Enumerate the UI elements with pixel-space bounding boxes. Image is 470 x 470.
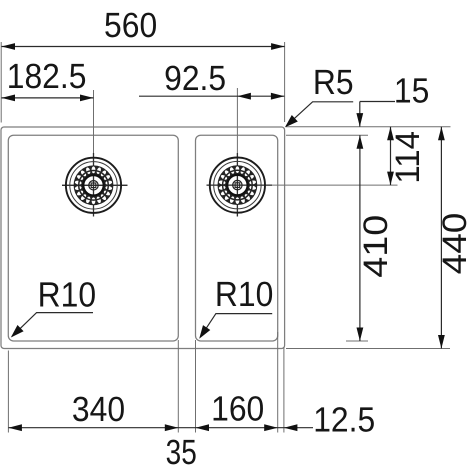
svg-text:R10: R10 <box>215 275 273 314</box>
svg-text:35: 35 <box>166 433 197 470</box>
arrow R10 right leader <box>199 325 210 339</box>
arrow 35 right / 160 left <box>196 424 210 431</box>
bowl 1 (left, 340) <box>8 135 178 341</box>
drain 1 vertical centerline <box>93 90 95 217</box>
ext bowl2 right x=277.7 <box>277 332 279 433</box>
drain 1 horizontal centerline <box>62 184 128 186</box>
arrow 114 down <box>387 172 394 186</box>
dim 15 line upper <box>360 102 395 127</box>
drain strainer bowl 2 <box>210 158 265 213</box>
dim 440 line <box>440 127 442 349</box>
svg-text:440: 440 <box>436 213 470 275</box>
svg-text:410: 410 <box>357 215 395 278</box>
arrow 114 up <box>387 127 394 141</box>
svg-text:12.5: 12.5 <box>313 401 375 440</box>
ext bowl1 left bottom x=8.4 <box>7 351 9 433</box>
arrow 182.5 left <box>2 95 16 102</box>
arrow 12.5 right <box>284 424 298 431</box>
dim 114 line <box>390 127 392 185</box>
arrow 440 down <box>438 335 445 349</box>
arrow 340 right / 35 left <box>165 424 179 431</box>
arrow 560 left <box>2 43 16 50</box>
bowl 2 (right, 160) <box>196 135 278 341</box>
arrow 92.5 left <box>237 93 251 100</box>
ext right x=284.6 <box>284 42 286 122</box>
sink outer rim <box>1 127 285 349</box>
R10 left leader <box>12 313 93 337</box>
svg-text:15: 15 <box>394 72 429 111</box>
ext divider left x=178.3 <box>177 340 179 433</box>
arrowheads <box>2 43 445 431</box>
svg-text:340: 340 <box>72 390 125 429</box>
ext divider right x=195.5 <box>195 340 197 433</box>
drain 2 horizontal centerline / ext for 114 <box>207 184 398 186</box>
arrow 410 down <box>357 328 364 342</box>
svg-text:560: 560 <box>104 6 157 45</box>
R10 right leader <box>201 314 273 337</box>
ext outer right bottom x=283.9 <box>283 347 285 433</box>
arrow R5 leader <box>285 115 298 127</box>
dim bottom line <box>8 427 313 429</box>
drain 1 crosshair <box>62 153 272 217</box>
svg-text:114: 114 <box>389 131 427 184</box>
arrow 340 left <box>8 424 22 431</box>
arrow R10 left leader <box>11 325 24 338</box>
arrow 15 down <box>356 113 363 127</box>
arrow 92.5 right <box>271 93 285 100</box>
drain strainer bowl 1 <box>66 158 121 213</box>
R5 leader <box>287 102 354 126</box>
ext bowl bottom right y=341 <box>346 340 368 342</box>
dim 92.5 line <box>139 95 284 97</box>
drain 2 vertical centerline <box>236 88 238 217</box>
dim 560 line <box>2 46 285 48</box>
dim 182.5 line <box>2 97 94 99</box>
arrow 440 up <box>438 127 445 141</box>
ext bowl top right y=135.2 <box>286 134 368 136</box>
ext left x=1.2 <box>0 42 2 123</box>
svg-text:R10: R10 <box>38 276 96 315</box>
dimension lines <box>2 47 442 428</box>
svg-text:182.5: 182.5 <box>7 57 87 96</box>
svg-text:92.5: 92.5 <box>164 59 226 98</box>
arrow 182.5 right <box>80 95 94 102</box>
dim 410 line <box>359 135 361 341</box>
arrow 560 right <box>271 43 285 50</box>
ext top edge right y=126.8 <box>286 126 451 128</box>
extension lines <box>1 42 450 433</box>
svg-text:R5: R5 <box>313 63 354 102</box>
arrow 160 right / 12.5 left <box>264 424 278 431</box>
svg-text:160: 160 <box>211 390 264 429</box>
ext outer bottom right y=348.5 <box>286 348 450 350</box>
arrow 15/410 up <box>357 135 364 149</box>
